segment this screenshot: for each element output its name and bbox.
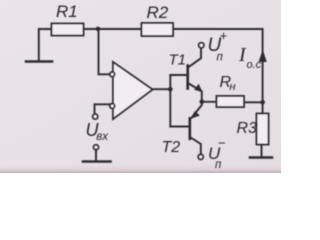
T1 emitter with arrow [189, 84, 201, 91]
transistor Q T2 base bar [189, 118, 192, 138]
node D (emitters junction dot) [200, 100, 205, 105]
wire: R1 to R2 through node A [84, 28, 142, 30]
op-amp input terminal bottom [110, 104, 115, 109]
transistor Q T1 base bar [186, 66, 189, 89]
svg-text:п: п [215, 159, 222, 171]
arrow Ioc (up arrowhead on right rail) [259, 50, 267, 63]
wire: R3 to ground3 [261, 145, 263, 156]
wire: op-amp - input to Uvx terminal [95, 104, 111, 114]
resistor R1 [52, 24, 84, 36]
paper background [0, 0, 281, 173]
node C (junction dot at bases rail) [168, 87, 173, 92]
node A (junction dot) [96, 27, 101, 32]
svg-text:R2: R2 [147, 3, 169, 22]
wire: node B down to R3 [262, 102, 264, 113]
ground (under R3, bar) [250, 156, 272, 159]
svg-text:н: н [230, 81, 236, 93]
wire: Uvx bottom terminal to ground2 [95, 150, 97, 160]
T2 collector [191, 138, 201, 155]
node B (junction dot right rail) [260, 100, 265, 105]
wire: op-amp output to node C [153, 88, 171, 90]
terminal circle Up+ [199, 43, 204, 48]
resistor Rn [217, 96, 245, 107]
svg-text:T2: T2 [162, 139, 181, 156]
wire: to T1 base [170, 74, 187, 76]
wire: top rail left segment (ground1 corner to R1) [39, 29, 52, 60]
terminal circle Uvx bottom [94, 145, 99, 150]
svg-text:п: п [217, 52, 224, 64]
resistor R3 [257, 114, 269, 145]
svg-text:−: − [218, 136, 226, 151]
wire: node D to Rn [202, 101, 217, 103]
wire: to T2 base [170, 126, 189, 128]
ground (under Uvx, bar) [83, 160, 111, 163]
wire: node A down to op-amp + input [99, 29, 110, 74]
svg-text:T1: T1 [169, 52, 187, 69]
terminal circle Uvx top [93, 114, 98, 119]
T1 collector [189, 48, 201, 67]
svg-text:о.с: о.с [247, 59, 262, 71]
svg-text:+: + [220, 28, 228, 43]
wire: R2 to top-right corner, down right rail to node B [173, 29, 263, 103]
op-amp U1 (triangle) [113, 62, 153, 119]
op-amp input terminal top [110, 72, 115, 77]
resistor R2 [142, 23, 174, 36]
terminal circle Up- [198, 154, 203, 159]
wire: T1 emitter down to node D [201, 92, 203, 102]
T2 emitter with arrow toward base [192, 102, 202, 118]
svg-text:вх: вх [96, 131, 109, 143]
wire: bases vertical rail [169, 75, 171, 127]
svg-text:R3: R3 [237, 120, 258, 137]
wire: Rn to node B [244, 101, 263, 103]
svg-text:R1: R1 [56, 2, 78, 21]
ground (left, bar) [26, 60, 52, 63]
